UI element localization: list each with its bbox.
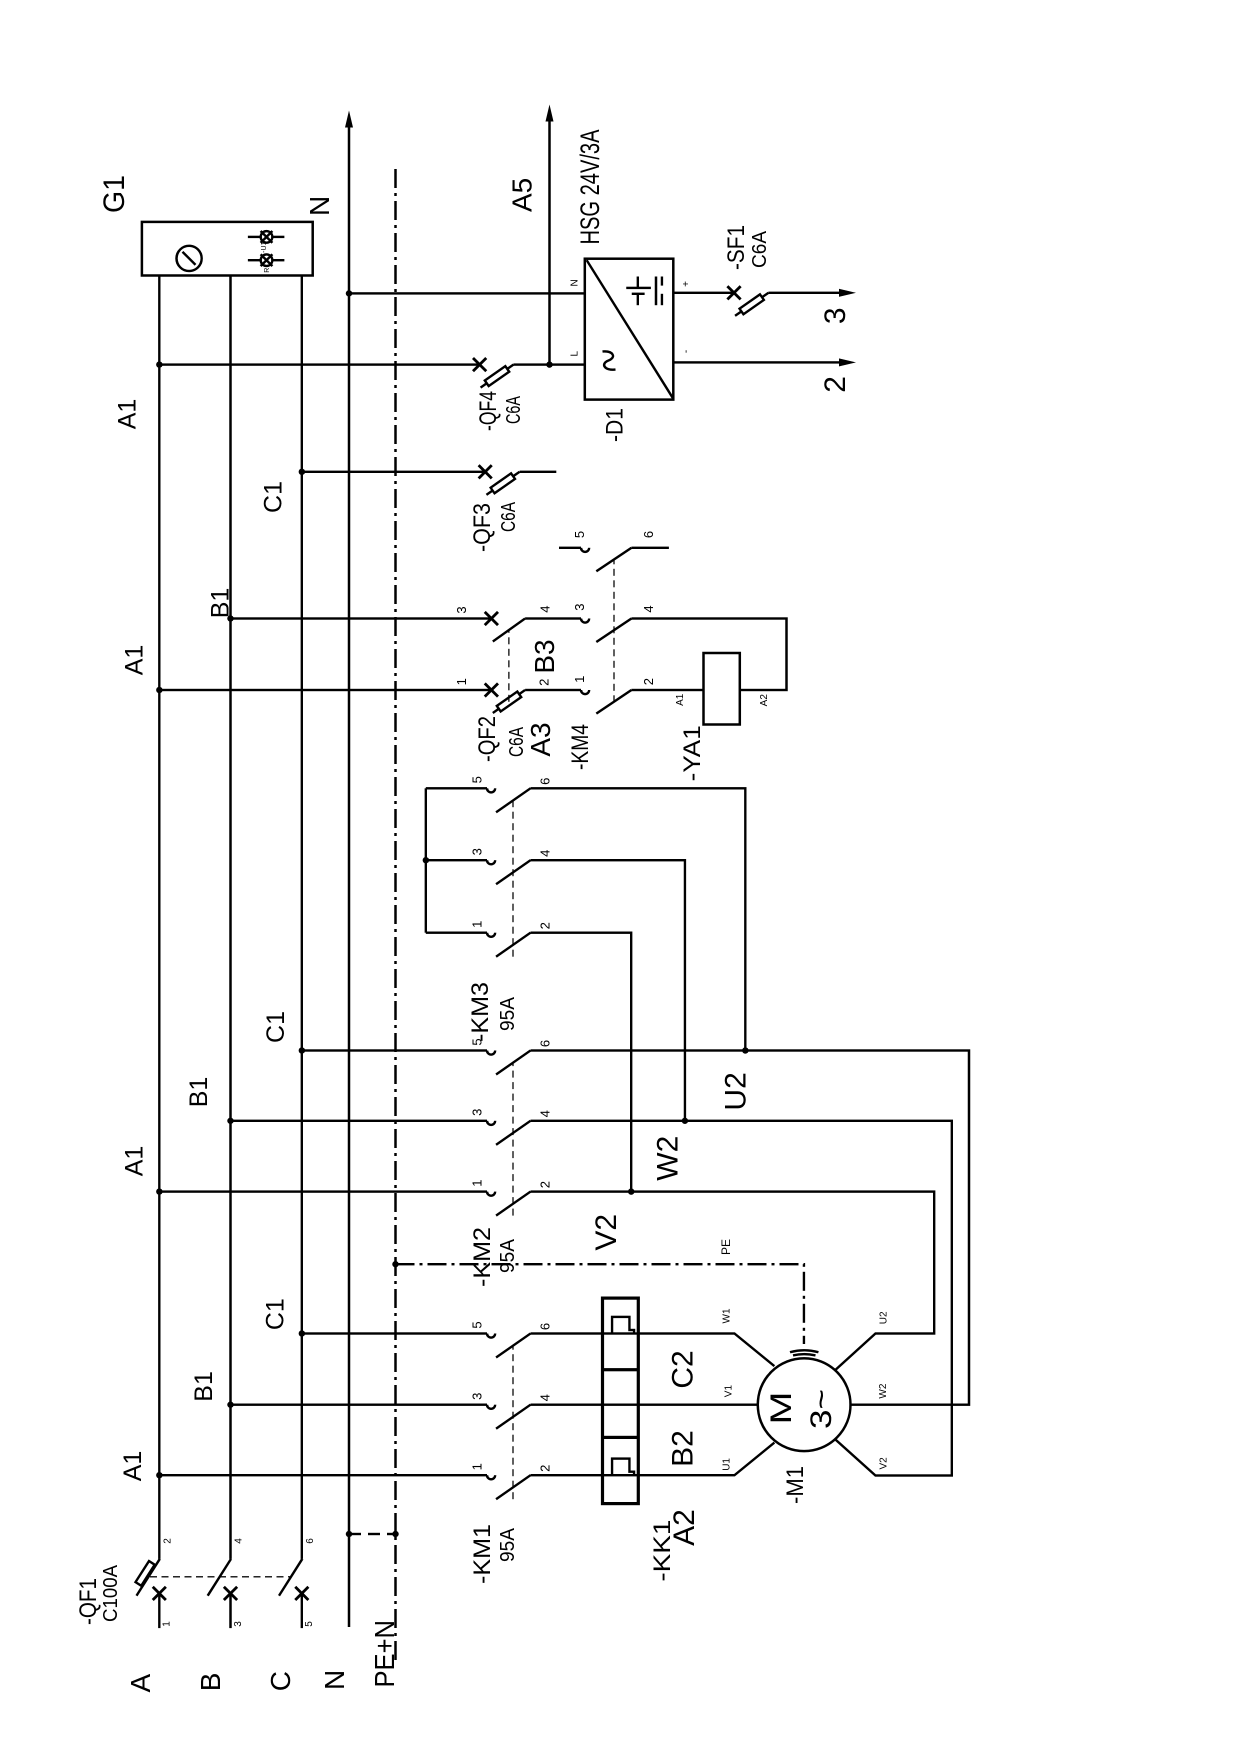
svg-text:U2: U2 <box>720 1072 753 1110</box>
svg-text:C6A: C6A <box>503 396 525 424</box>
svg-text:95A: 95A <box>497 1527 519 1562</box>
svg-text:B1: B1 <box>207 588 235 619</box>
svg-text:W1: W1 <box>722 1308 733 1323</box>
svg-text:4: 4 <box>234 1538 245 1544</box>
svg-text:2: 2 <box>537 679 552 686</box>
svg-text:-KM3: -KM3 <box>467 982 494 1042</box>
svg-text:PE+N: PE+N <box>369 1620 400 1688</box>
svg-text:-QF2: -QF2 <box>474 716 501 762</box>
svg-text:-U1: -U1 <box>261 241 268 252</box>
svg-text:A1: A1 <box>114 399 142 430</box>
svg-text:W2: W2 <box>878 1383 889 1398</box>
svg-text:1: 1 <box>470 1179 485 1186</box>
svg-text:B1: B1 <box>185 1077 213 1108</box>
svg-text:A5: A5 <box>507 178 538 212</box>
svg-text:3: 3 <box>233 1621 244 1627</box>
svg-text:B1: B1 <box>190 1371 218 1402</box>
svg-text:3: 3 <box>572 603 587 610</box>
svg-text:95A: 95A <box>497 1238 519 1273</box>
svg-text:G1: G1 <box>98 175 131 213</box>
svg-text:-QF1: -QF1 <box>75 1578 102 1625</box>
svg-text:B3: B3 <box>529 639 560 673</box>
svg-text:HSG 24V/3A: HSG 24V/3A <box>575 130 605 245</box>
svg-text:4: 4 <box>641 605 656 612</box>
svg-text:3: 3 <box>819 307 852 324</box>
svg-text:C6A: C6A <box>749 230 771 268</box>
svg-text:5: 5 <box>304 1621 315 1627</box>
svg-text:6: 6 <box>538 1323 553 1330</box>
svg-text:-KM1: -KM1 <box>469 1524 496 1584</box>
svg-text:C6A: C6A <box>498 501 520 532</box>
svg-text:N: N <box>304 196 335 216</box>
svg-text:6: 6 <box>641 531 656 538</box>
svg-text:6: 6 <box>305 1538 316 1544</box>
svg-text:M: M <box>765 1392 798 1425</box>
svg-text:4: 4 <box>538 1394 553 1401</box>
svg-text:-M1: -M1 <box>782 1466 809 1504</box>
svg-text:2: 2 <box>538 1181 553 1188</box>
svg-text:3~: 3~ <box>805 1389 838 1429</box>
svg-text:-YA1: -YA1 <box>679 725 706 781</box>
svg-text:5: 5 <box>572 531 587 538</box>
svg-text:-D1: -D1 <box>602 408 629 442</box>
svg-text:W2: W2 <box>651 1136 684 1181</box>
svg-text:3: 3 <box>454 606 469 613</box>
svg-text:A2: A2 <box>759 694 770 707</box>
svg-text:-KM4: -KM4 <box>567 724 594 770</box>
svg-text:1: 1 <box>470 1463 485 1470</box>
svg-text:-: - <box>681 350 692 353</box>
svg-text:3: 3 <box>470 1393 485 1400</box>
svg-text:C1: C1 <box>262 1011 290 1043</box>
svg-text:V2: V2 <box>879 1457 890 1470</box>
svg-text:1: 1 <box>454 678 469 685</box>
svg-text:B: B <box>195 1673 226 1692</box>
svg-text:C2: C2 <box>667 1350 700 1388</box>
svg-text:1: 1 <box>162 1621 173 1627</box>
svg-text:A1: A1 <box>119 1451 147 1482</box>
svg-text:C1: C1 <box>262 1298 290 1330</box>
svg-text:-QF4: -QF4 <box>475 391 502 431</box>
svg-text:1: 1 <box>470 921 485 928</box>
svg-text:95A: 95A <box>497 996 519 1031</box>
svg-text:-QF3: -QF3 <box>469 503 496 552</box>
svg-text:C: C <box>265 1671 296 1691</box>
svg-text:U2: U2 <box>879 1311 890 1324</box>
svg-text:U1: U1 <box>722 1458 733 1471</box>
svg-text:A: A <box>125 1674 156 1693</box>
svg-text:3: 3 <box>470 1109 485 1116</box>
svg-text:2: 2 <box>641 678 656 685</box>
svg-text:5: 5 <box>470 1321 485 1328</box>
svg-text:4: 4 <box>538 850 553 857</box>
svg-text:4: 4 <box>538 605 553 612</box>
svg-text:A1: A1 <box>121 645 149 676</box>
svg-text:A2: A2 <box>668 1509 701 1546</box>
svg-text:C100A: C100A <box>100 1564 122 1622</box>
svg-text:2: 2 <box>819 376 852 393</box>
svg-text:-SF1: -SF1 <box>723 225 750 270</box>
svg-text:PE: PE <box>719 1239 733 1255</box>
svg-text:L: L <box>570 350 581 356</box>
svg-text:C1: C1 <box>260 481 288 513</box>
svg-text:V1: V1 <box>724 1385 735 1398</box>
svg-text:2: 2 <box>538 922 553 929</box>
svg-text:2: 2 <box>162 1538 173 1544</box>
svg-text:A1: A1 <box>121 1146 149 1177</box>
svg-text:R: R <box>264 268 271 273</box>
svg-text:4: 4 <box>538 1110 553 1117</box>
svg-text:N: N <box>319 1670 350 1690</box>
svg-text:6: 6 <box>538 778 553 785</box>
svg-text:A3: A3 <box>525 722 556 756</box>
svg-text:+: + <box>681 281 692 287</box>
svg-text:1: 1 <box>572 676 587 683</box>
svg-text:6: 6 <box>538 1040 553 1047</box>
svg-text:B2: B2 <box>667 1430 700 1467</box>
svg-text:2: 2 <box>538 1465 553 1472</box>
svg-text:5: 5 <box>470 776 485 783</box>
svg-text:A1: A1 <box>675 693 686 706</box>
svg-text:3: 3 <box>470 848 485 855</box>
svg-text:V2: V2 <box>590 1214 623 1251</box>
svg-text:N: N <box>570 279 581 286</box>
svg-text:-KM2: -KM2 <box>469 1227 496 1287</box>
